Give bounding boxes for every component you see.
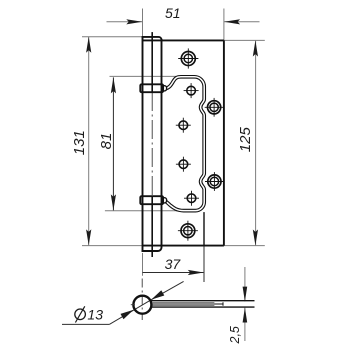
arrow O13 lower-left (points up-right at circle): [121, 310, 134, 319]
lower collar: [140, 196, 163, 204]
pin lower section line: [151, 197, 153, 258]
dim 37 extension left: [142, 253, 144, 276]
svg-text:81: 81: [98, 133, 115, 150]
arrow 81 bottom (points down): [111, 194, 116, 210]
svg-text:51: 51: [165, 5, 181, 21]
svg-text:2,5: 2,5: [228, 326, 242, 344]
pin upper section line: [151, 32, 153, 91]
centerline knuckle (front view, dash-dot): [151, 92, 153, 196]
plate bottom edge: [143, 245, 224, 247]
arrow 131 top (points up): [86, 37, 91, 53]
arrow 2,5 top (points down): [243, 287, 248, 302]
leaf middle end tick: [222, 302, 224, 305]
leader O13 diagonal lower: [109, 310, 133, 324]
svg-text:131: 131: [71, 130, 88, 155]
arrow 51 right (points left): [224, 19, 240, 24]
dim 131 extension top: [82, 36, 143, 38]
upper collar: [140, 84, 163, 92]
circle horizontal center tick left: [131, 304, 135, 306]
dim 51 line left tail: [107, 21, 143, 23]
dim 131 extension bottom / plate bottom ext left: [82, 245, 143, 247]
hole 2 small: [184, 83, 199, 98]
knuckle barrel right edge: [161, 39, 163, 248]
dim 125 extension bottom (plate bottom ext right): [224, 245, 265, 247]
arrow 125 top (points up): [253, 41, 258, 57]
arrow 51 left (points right): [126, 19, 142, 24]
arrow 81 top (points up): [111, 77, 116, 93]
dim 2,5 line lower: [244, 308, 246, 341]
hole 1 top countersunk: [178, 48, 198, 68]
hole 6 right countersunk: [205, 172, 224, 191]
leaf top line: [151, 300, 255, 302]
leaf middle line: [152, 303, 224, 305]
dim 125 line: [255, 41, 257, 246]
knuckle circle: [133, 296, 151, 314]
upper collar right tab: [162, 86, 167, 91]
dim 81 extension bottom: [105, 210, 182, 212]
plate right edge: [223, 40, 225, 245]
leaf seam short lines: [153, 301, 215, 303]
leader O13 diagonal upper tail: [151, 281, 183, 299]
knuckle barrel left edge: [142, 37, 144, 252]
dim 125 extension top (plate top ext right): [224, 39, 265, 41]
lower collar right tab: [162, 198, 167, 203]
plate top edge: [143, 39, 224, 41]
leaf bottom line: [151, 306, 255, 308]
hole 7 small: [184, 191, 199, 206]
arrow 37 right (points right): [188, 270, 204, 275]
back leaf edge (visible below front leaf outline): [203, 212, 205, 246]
arrow 131 bottom (points down): [86, 229, 91, 245]
dim 81 line: [112, 77, 114, 210]
hole 5 small: [176, 157, 191, 172]
centerline side view (dash-dot): [141, 279, 143, 321]
dim 51 extension left (above barrel): [142, 9, 144, 37]
dim 37 extension right (below plate): [203, 246, 205, 282]
barrel top cap: [142, 37, 162, 40]
svg-text:37: 37: [165, 256, 182, 272]
arrow 125 bottom (points down): [253, 230, 258, 246]
label O13: [75, 306, 86, 322]
dim 37 line: [143, 272, 204, 274]
barrel bottom cap: [142, 247, 162, 251]
hole 8 bottom countersunk: [178, 221, 198, 241]
arrow O13 upper-right (points down-left at circle): [151, 290, 164, 299]
leader O13 diagonal through circle: [134, 300, 152, 311]
arrow 2,5 bottom (points up): [243, 308, 248, 323]
front leaf rounded outline (double line via black+white strokes): [165, 77, 204, 211]
svg-text:125: 125: [237, 127, 254, 153]
dim 131 line: [88, 37, 90, 246]
dim 51 extension right (above plate): [223, 9, 225, 41]
svg-text:13: 13: [87, 306, 103, 322]
hole 3 right countersunk: [205, 98, 224, 117]
leader O13 underline: [62, 323, 109, 325]
dim 2,5 line upper: [244, 267, 246, 301]
dim 81 extension top: [110, 75, 179, 77]
hole 4 small: [176, 118, 191, 133]
dim 51 line right tail: [224, 21, 259, 23]
